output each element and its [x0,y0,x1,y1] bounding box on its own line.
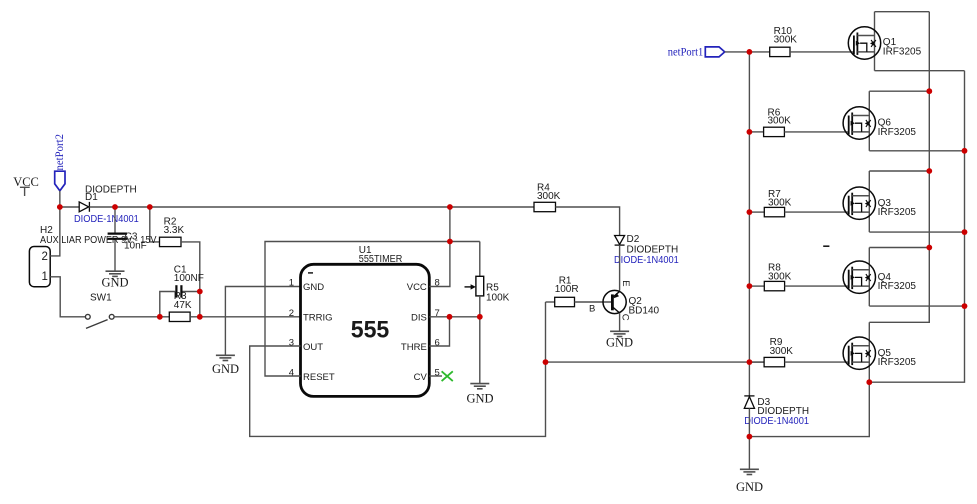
ground under C3 [106,271,125,276]
label Q3 IRF3205 [878,198,917,218]
svg-text:1: 1 [42,271,48,283]
wire Q3 source loop bottom [869,231,964,233]
wire R2 to TRRIG net [181,242,200,317]
wire H2 pin2 to VCC node [50,207,60,256]
label C1 100NF [174,265,204,284]
resistor R3 [169,312,190,321]
svg-text:VCC: VCC [13,175,39,189]
svg-text:4: 4 [289,367,294,378]
wire OUT node to R1 [546,301,555,303]
label H2 [40,225,157,246]
wire Q3 drain loop top [869,170,929,172]
svg-text:300K: 300K [768,272,792,283]
label R10 300K [774,26,798,46]
wire bus to R9 [749,361,764,363]
port netPort2 [55,171,65,191]
wire netPort2 to node [59,191,61,207]
diode D2 [615,236,625,246]
pin numbers U1 right [435,278,440,379]
wire R4 to D2 [556,207,620,236]
svg-text:GND: GND [736,480,763,494]
potentiometer R5 [465,242,484,384]
wire R1 to Q2 base [575,301,612,303]
svg-text:GND: GND [467,392,494,406]
wire C3 to ground [114,240,116,271]
wire netPort1 to bus [725,51,750,53]
label R8 300K [768,263,792,283]
pin1 marker dash (U1) [308,272,313,274]
svg-text:100R: 100R [555,284,579,295]
label D2 [627,234,679,255]
wire Q2 collector to ground [619,313,621,331]
capacitor C1 [176,285,181,297]
svg-text:DIODE-1N4001: DIODE-1N4001 [744,416,809,427]
wire Q6 source loop bottom [869,150,964,152]
wire bus to R10 [749,51,769,53]
svg-text:AUXILIAR POWER 9V - 15V: AUXILIAR POWER 9V - 15V [40,235,157,246]
svg-text:DIODE-1N4001: DIODE-1N4001 [614,255,679,266]
label D3 [757,397,809,417]
svg-text:300K: 300K [537,191,561,202]
label Q1 IRF3205 [883,37,922,57]
svg-text:300K: 300K [774,35,798,46]
port netPort1 [705,47,724,57]
diode D1 [79,202,89,212]
wire C1 right [183,291,200,293]
wire output bus to netPort1 bus [546,361,765,363]
svg-text:BD140: BD140 [629,305,660,316]
label R1 100R [555,276,579,295]
label D1 [85,185,137,203]
wire Q5 source to ground bus [749,382,869,436]
transistor Q1 [848,12,880,71]
svg-text:100K: 100K [486,292,510,303]
wire bus to R6 [749,131,763,133]
svg-text:3: 3 [289,337,294,348]
svg-text:300K: 300K [768,198,792,209]
wire SW1 to R3 node [114,316,169,318]
wire 555 pin1 to ground [225,287,300,356]
svg-text:TRRIG: TRRIG [303,312,333,323]
resistor R4 [534,202,556,211]
svg-text:DIODEPTH: DIODEPTH [627,244,679,255]
ground under Q2 [610,331,629,336]
svg-text:2: 2 [289,308,294,319]
svg-text:IRF3205: IRF3205 [883,46,922,57]
diode D3 [744,396,754,409]
wire R9 to Q5 gate [785,361,849,363]
label R7 300K [768,189,792,209]
svg-text:D1: D1 [85,192,98,203]
svg-text:SW1: SW1 [90,292,112,303]
svg-text:6: 6 [435,337,440,348]
wire Q5 drain to Q4 source [869,306,929,322]
ground under R5 [470,384,489,389]
svg-text:5: 5 [435,367,440,378]
svg-text:555: 555 [351,317,390,344]
resistor R1 [555,297,575,306]
resistor R2 [160,237,182,246]
label R4 300K [537,182,561,202]
wire bus to R7 [749,211,764,213]
wire R6 to Q6 gate [784,131,848,133]
svg-text:THRE: THRE [401,342,427,353]
svg-text:E: E [620,280,631,286]
wire main VCC rail segment to D1 [60,206,79,208]
svg-text:RESET: RESET [303,372,335,383]
wire DIS pin7 [429,316,480,318]
wire node to C3 [114,207,116,233]
wire inner drain bus [928,12,930,323]
wire D2 to Q2 emitter [619,245,621,291]
label Q2 BD140 [629,296,660,316]
label R2 3.3K [164,217,185,236]
pin numbers U1 left [289,278,294,379]
label Q5 IRF3205 [878,348,917,368]
label R5 100K [486,283,510,304]
ground at 555 pin1 [216,355,235,360]
svg-text:DIS: DIS [411,312,427,323]
label U1 555TIMER [359,245,403,265]
svg-text:CV: CV [414,372,428,383]
svg-text:IRF3205: IRF3205 [878,281,917,292]
svg-text:1: 1 [289,278,294,289]
wire Q4 source loop bottom [869,305,964,307]
resistor R10 [770,47,790,56]
wire H2 pin1 to SW1 [50,277,85,317]
no-connect X at CV [442,371,453,381]
VCC power symbol [20,187,30,196]
wire D3 to ground [748,408,750,469]
wire CV pin5 stub [429,375,442,377]
wire OUT down and around [250,302,546,436]
svg-text:VCC: VCC [407,282,427,293]
wire VCC pin8 riser [429,207,450,287]
op-amp U1 555 timer body [301,264,430,396]
wire RESET to VCC rail2 [265,242,480,377]
resistor R7 [764,207,784,216]
wire THRE pin6 [429,317,449,346]
svg-text:GND: GND [606,335,633,349]
wire bus to R8 [749,285,764,287]
wire R8 to Q4 gate [785,285,849,287]
svg-text:GND: GND [212,362,239,376]
wire R7 to Q3 gate [785,211,849,213]
wire gate drive bus [748,52,750,396]
wire Q6 drain loop top [869,90,929,92]
wire R3 to TRRIG [190,316,300,318]
resistor R8 [764,281,784,290]
svg-text:netPort2: netPort2 [54,134,66,171]
wire Q1 drain loop top [875,11,930,13]
wire Q1 source loop bottom [875,70,965,72]
capacitor C3 [108,234,127,239]
transistor Q4 [843,248,875,307]
wire R10 to Q1 gate [790,51,854,53]
transistor Q2 [603,290,626,313]
switch SW1 [85,314,114,328]
svg-text:100NF: 100NF [174,273,204,284]
wire VCC rail D1 to R4 [89,206,534,208]
pin labels U1 right [401,282,428,383]
svg-text:300K: 300K [770,346,794,357]
svg-text:IRF3205: IRF3205 [878,207,917,218]
ground bottom right [740,469,759,474]
label R6 300K [768,107,792,126]
svg-text:DIODE-1N4001: DIODE-1N4001 [74,214,139,225]
svg-text:GND: GND [303,282,324,293]
wire Q4 drain loop top [869,247,929,249]
resistor R6 [764,127,785,136]
wire C1 branch left [160,292,176,317]
transistor Q5 [843,322,875,382]
svg-text:B: B [589,304,595,315]
transistor Q3 [843,171,875,232]
label Q4 IRF3205 [878,272,917,292]
pin labels U1 left [303,282,335,383]
svg-text:555TIMER: 555TIMER [359,254,403,265]
svg-text:IRF3205: IRF3205 [878,127,917,138]
svg-text:47K: 47K [174,300,192,311]
transistor Q6 [843,91,875,151]
label R9 300K [770,337,794,357]
wire node to R2 [150,207,160,242]
svg-text:3.3K: 3.3K [164,225,185,236]
svg-text:2: 2 [42,251,48,263]
connector H2 [29,247,50,287]
svg-text:300K: 300K [768,116,792,127]
svg-text:GND: GND [102,276,129,290]
label Q6 IRF3205 [878,118,917,138]
resistor R9 [764,357,785,366]
pin1 marker dash (Q4 area) [823,245,829,247]
svg-text:IRF3205: IRF3205 [878,357,917,368]
svg-text:OUT: OUT [303,342,323,353]
wire outer source bus [869,71,964,383]
svg-text:netPort1: netPort1 [668,47,704,59]
label C3 [124,231,147,251]
